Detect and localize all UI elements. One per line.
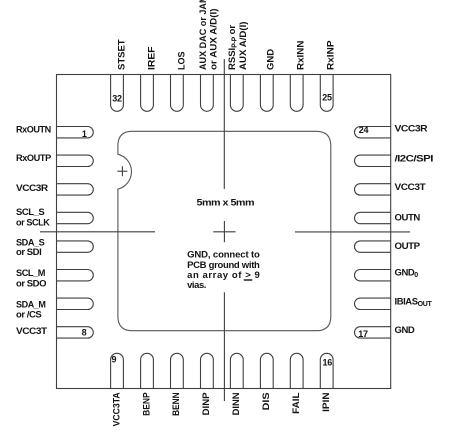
svg-text:9: 9: [111, 354, 116, 364]
pin 17 pad (right): [355, 327, 391, 338]
svg-text:/I2C/SPI: /I2C/SPI: [395, 153, 433, 164]
svg-text:BENP: BENP: [141, 392, 152, 416]
svg-text:VCC3R: VCC3R: [16, 183, 48, 194]
pin 23 pad (right): [355, 155, 391, 166]
pin 11 pad (bottom): [171, 353, 184, 388]
pin 9 pad (bottom): [111, 353, 124, 388]
horizontal centerline (right): [295, 231, 410, 233]
pin 29 pad (top): [201, 75, 214, 112]
pin 1 pad (left): [57, 127, 94, 138]
svg-text:VCC3TA: VCC3TA: [111, 392, 122, 426]
svg-text:AUX A/D(I): AUX A/D(I): [238, 22, 249, 70]
svg-text:RxOUTP: RxOUTP: [16, 153, 52, 164]
svg-text:DINN: DINN: [231, 392, 242, 415]
svg-text:RxOUTN: RxOUTN: [16, 124, 51, 135]
svg-text:or SDO: or SDO: [16, 278, 46, 289]
center cross mark: [213, 231, 235, 233]
pin 26 pad (top): [290, 75, 303, 112]
vertical centerline leader (top): [223, 59, 225, 189]
pin 28 pad (top): [230, 75, 243, 112]
svg-text:16: 16: [322, 357, 332, 367]
pin 21 pad (right): [355, 212, 391, 223]
svg-text:IPIN: IPIN: [321, 392, 332, 412]
underline of >= sign: [244, 279, 253, 281]
pin 3 pad (left): [57, 184, 94, 195]
exposed pad outline with pin-1 notch: [118, 131, 331, 330]
svg-text:25: 25: [322, 92, 332, 102]
pin 18 pad (right): [355, 298, 391, 309]
pin 4 pad (left): [57, 212, 94, 223]
svg-text:8: 8: [82, 328, 87, 338]
svg-text:VCC3T: VCC3T: [16, 326, 47, 337]
pin 8 pad (left): [57, 327, 94, 338]
svg-text:or /CS: or /CS: [16, 310, 41, 321]
pin 32 pad (top): [111, 75, 124, 112]
pin 19 pad (right): [355, 270, 391, 281]
svg-text:OUTP: OUTP: [395, 241, 421, 252]
svg-text:32: 32: [112, 94, 122, 104]
pin 2 pad (left): [57, 155, 94, 166]
svg-text:GND: GND: [395, 325, 415, 336]
pin 30 pad (top): [171, 75, 184, 112]
svg-text:RxINP: RxINP: [325, 40, 336, 70]
svg-text:vias.: vias.: [187, 280, 206, 291]
pin 16 pad (bottom): [320, 353, 333, 388]
pin 5 pad (left): [57, 241, 94, 252]
pin 13 pad (bottom): [230, 353, 243, 388]
svg-text:DIS: DIS: [261, 392, 272, 410]
svg-text:BENN: BENN: [171, 392, 182, 416]
svg-text:or SCLK: or SCLK: [16, 217, 50, 228]
pin 12 pad (bottom): [201, 353, 214, 388]
pin 7 pad (left): [57, 298, 94, 309]
svg-text:FAIL: FAIL: [291, 392, 302, 414]
pin 24 pad (right): [355, 127, 391, 138]
svg-text:IREF: IREF: [147, 46, 158, 70]
pin 22 pad (right): [355, 184, 391, 195]
vertical centerline (bottom): [223, 292, 225, 401]
pin 25 pad (top): [320, 75, 333, 112]
pin 10 pad (bottom): [141, 353, 154, 388]
pin-1 index plus mark: [117, 170, 127, 172]
svg-text:DINP: DINP: [201, 392, 212, 416]
horizontal centerline (left): [40, 231, 155, 233]
svg-text:GND: GND: [266, 49, 277, 70]
pin 15 pad (bottom): [290, 353, 303, 388]
svg-text:VCC3T: VCC3T: [395, 182, 426, 193]
svg-text:VCC3R: VCC3R: [395, 124, 428, 135]
svg-text:LOS: LOS: [176, 52, 187, 71]
pin 6 pad (left): [57, 270, 94, 281]
svg-text:24: 24: [359, 125, 369, 135]
package outline U1 (QFN-32, 5mm x 5mm): [57, 75, 391, 389]
svg-text:AUX DAC or JAM: AUX DAC or JAM: [198, 0, 209, 70]
svg-text:17: 17: [358, 329, 368, 339]
pin 14 pad (bottom): [260, 353, 273, 388]
svg-text:5mm x 5mm: 5mm x 5mm: [197, 198, 255, 209]
svg-text:RxINN: RxINN: [295, 40, 306, 70]
svg-text:STSET: STSET: [117, 39, 128, 70]
svg-text:or AUX A/D(I): or AUX A/D(I): [209, 9, 220, 71]
svg-text:or SDI: or SDI: [16, 247, 41, 258]
pin 31 pad (top): [141, 75, 154, 112]
pin 27 pad (top): [260, 75, 273, 112]
pin 20 pad (right): [355, 241, 391, 252]
svg-text:1: 1: [82, 129, 87, 139]
svg-text:OUTN: OUTN: [395, 212, 421, 223]
